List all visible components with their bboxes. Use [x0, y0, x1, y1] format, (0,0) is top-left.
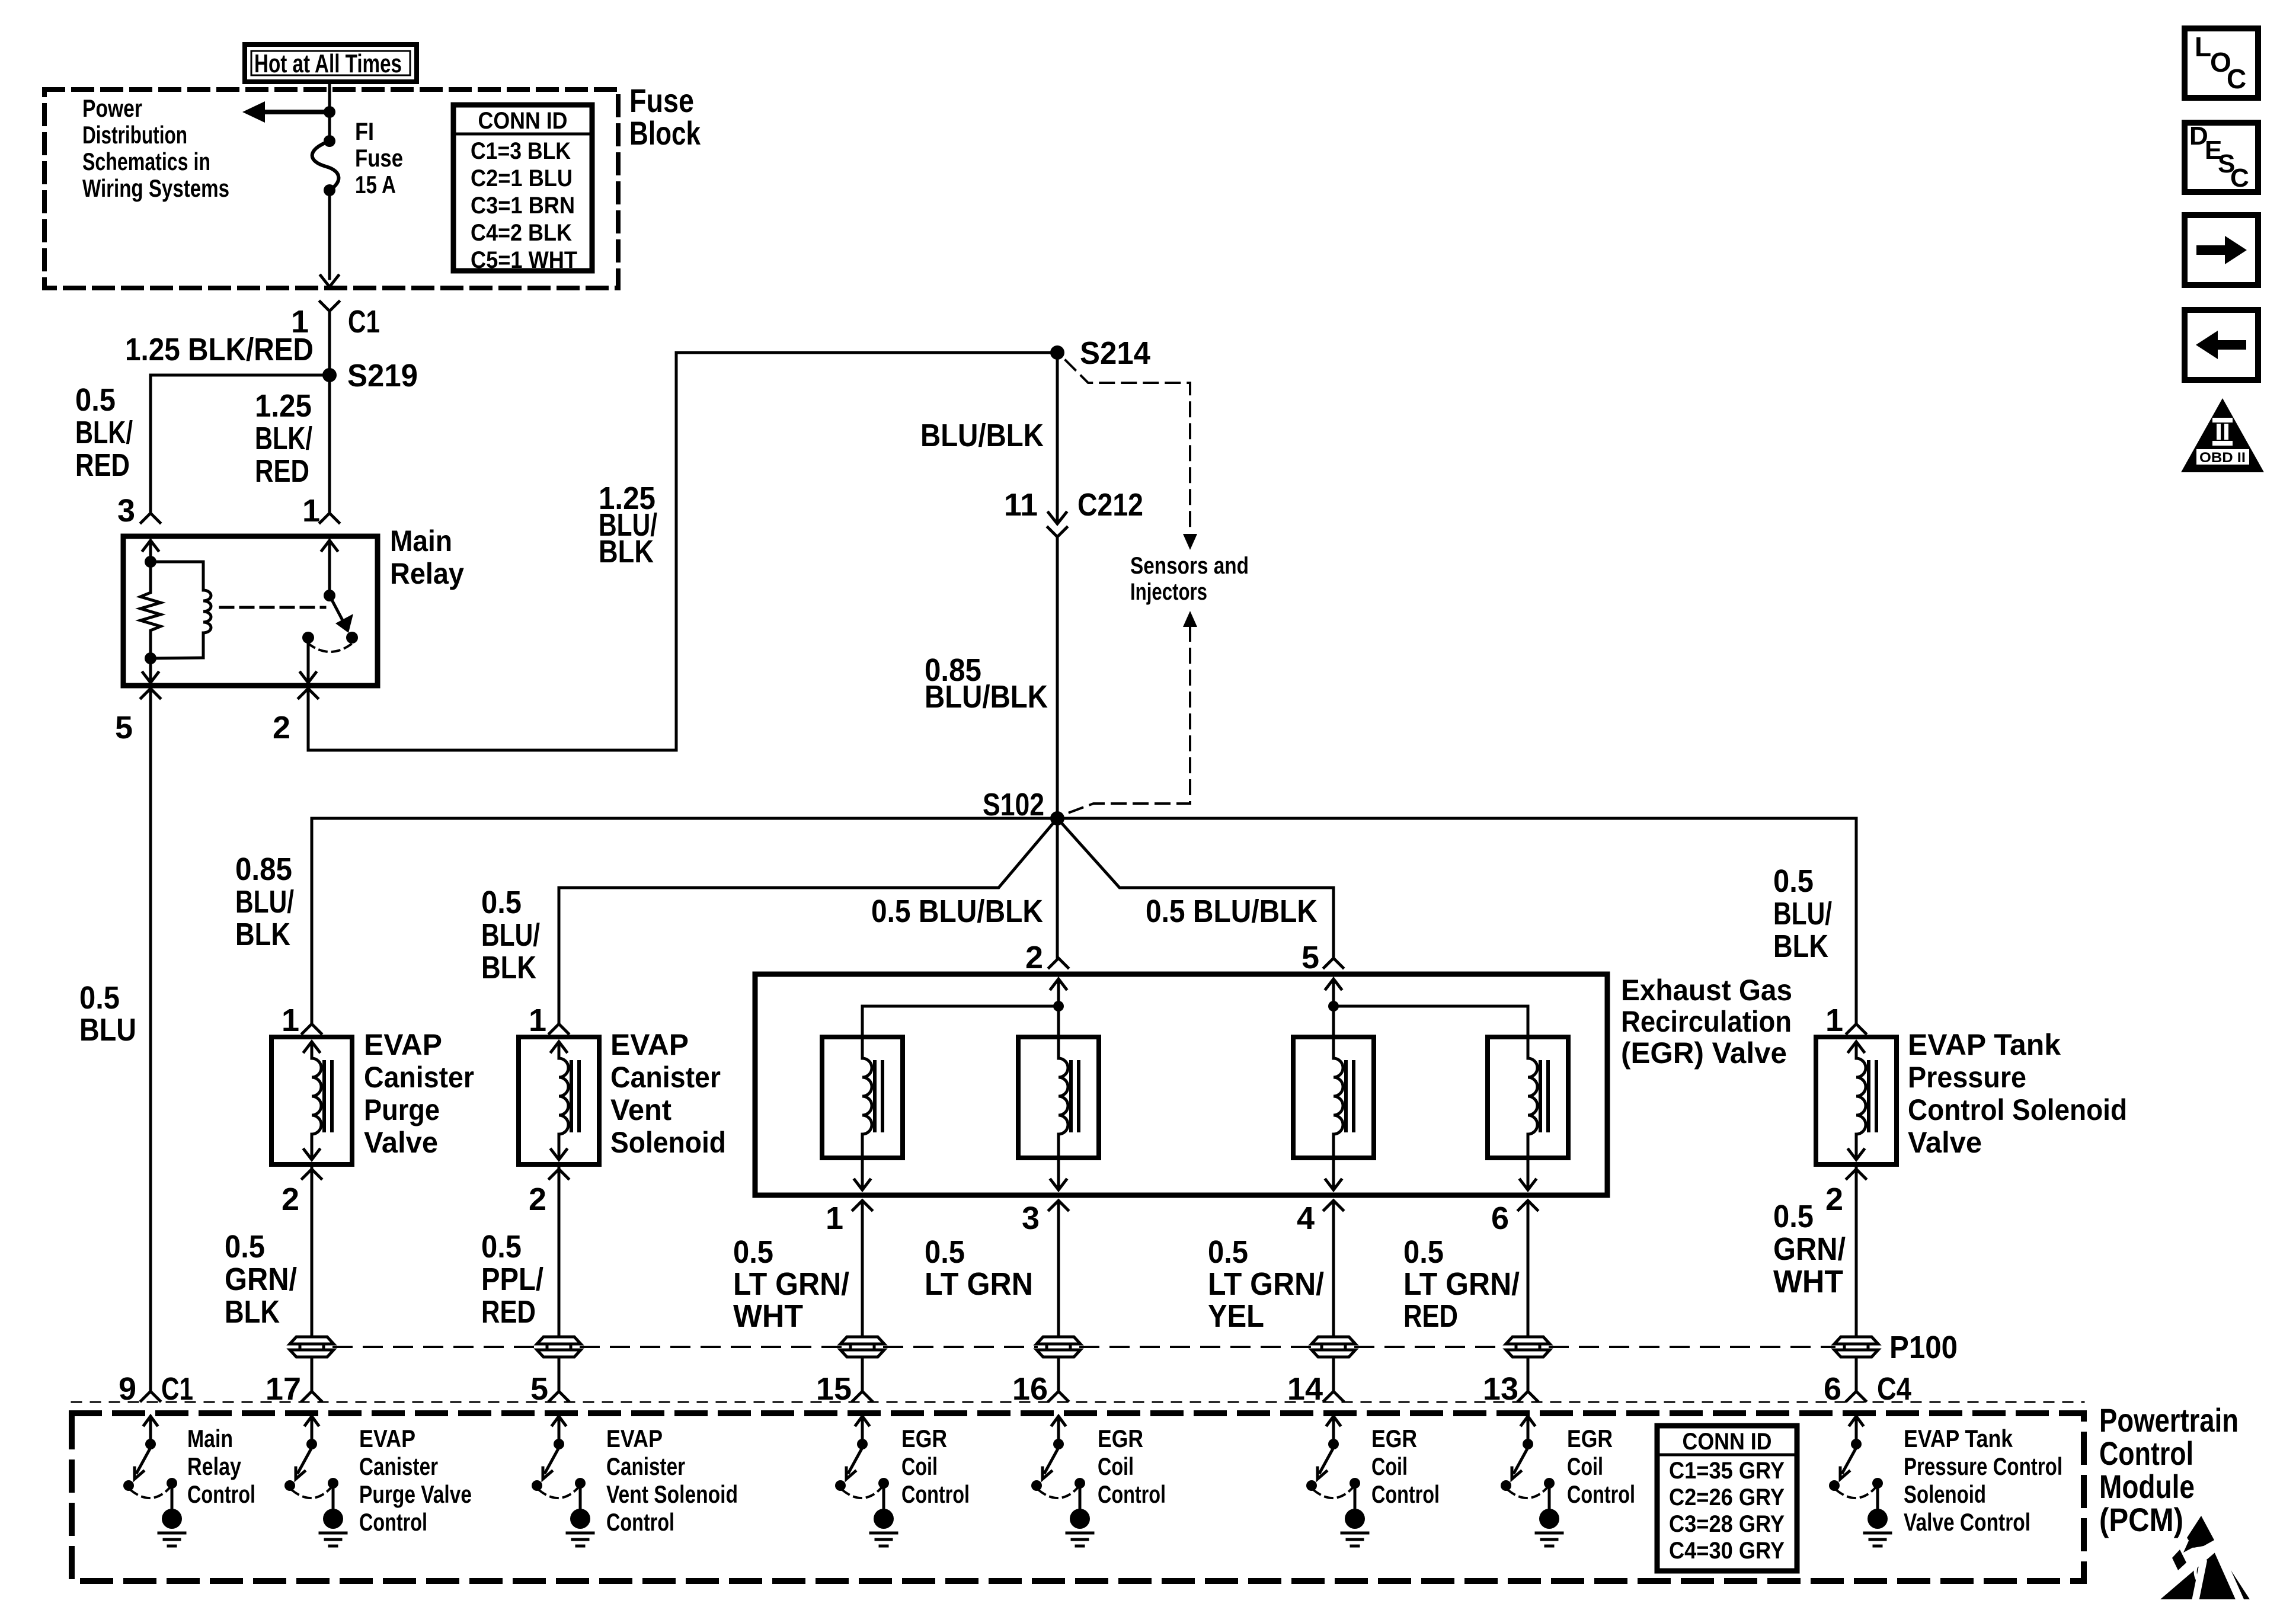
connector C1 pin 1: [291, 302, 380, 340]
svg-text:11: 11: [1004, 487, 1038, 523]
svg-text:PPL/: PPL/: [481, 1262, 543, 1297]
svg-text:BLU/: BLU/: [1773, 896, 1832, 932]
svg-text:0.5: 0.5: [225, 1229, 265, 1265]
PCM driver switch + ground at x=3132 (EVAP Tank Pressure Control): [1829, 1416, 1891, 1546]
wire into PCM x=2250: [1324, 1358, 1343, 1401]
label: EVAP Tank Pressure Control Solenoid Valve Control: [1904, 1425, 2062, 1536]
svg-text:WHT: WHT: [1773, 1264, 1843, 1299]
label: EGR Coil Control: [901, 1425, 970, 1508]
label: 0.5 LT GRN: [925, 1234, 1033, 1302]
wire: S102 branch to EGR pin 5: [1057, 818, 1334, 959]
PCM driver switch + ground at x=943 (EVAP Canister): [532, 1416, 593, 1546]
svg-text:0.5: 0.5: [1403, 1234, 1444, 1270]
vent pin 1 connector: [529, 1003, 568, 1038]
svg-text:C2=1 BLU: C2=1 BLU: [471, 165, 573, 191]
EGR pin 4: [1297, 1201, 1343, 1336]
label: EGR Coil Control: [1371, 1425, 1440, 1508]
wire: S219 branch left and down to relay pin 3: [151, 375, 330, 511]
EGR pin 2 connector: [1025, 940, 1068, 975]
label: Fuse Block: [629, 82, 701, 152]
svg-text:Vent: Vent: [610, 1093, 671, 1126]
svg-text:Module: Module: [2099, 1468, 2195, 1505]
splice S102: [983, 787, 1064, 825]
label: EGR Coil Control: [1567, 1425, 1635, 1508]
label: Main Relay: [390, 524, 464, 590]
svg-text:0.5: 0.5: [925, 1234, 965, 1270]
PCM driver switch + ground at x=1786 (EGR Coil): [1031, 1416, 1093, 1546]
label: BLU/BLK: [920, 418, 1044, 453]
svg-text:C3=28 GRY: C3=28 GRY: [1669, 1511, 1785, 1537]
icon: DESC box: [2185, 121, 2258, 193]
grommet P100 at x=3132: [1834, 1337, 1878, 1357]
svg-text:1: 1: [1825, 1003, 1843, 1038]
label: 1.25 BLK/RED (pin1 feed): [255, 388, 312, 489]
relay switch pin1/pin2 side: [300, 540, 358, 683]
svg-text:Coil: Coil: [1371, 1452, 1408, 1480]
wire: arrow to other circuits (left): [242, 101, 330, 123]
svg-text:C3=1 BRN: C3=1 BRN: [471, 193, 575, 219]
EGR pin 6: [1491, 1201, 1537, 1336]
svg-text:GRN/: GRN/: [225, 1262, 297, 1297]
wire into PCM x=1455: [853, 1358, 872, 1401]
svg-text:Solenoid: Solenoid: [610, 1126, 726, 1159]
label: EGR Coil Control: [1098, 1425, 1166, 1508]
svg-text:Power: Power: [82, 94, 142, 122]
CONN ID table (fuse block): [453, 105, 592, 273]
svg-text:15 A: 15 A: [355, 171, 396, 199]
label: EVAP Canister Vent Solenoid Control: [606, 1425, 738, 1536]
svg-text:LT GRN/: LT GRN/: [733, 1266, 849, 1302]
svg-text:Hot at All Times: Hot at All Times: [254, 49, 402, 78]
svg-text:P100: P100: [1889, 1330, 1958, 1365]
P100 dashed bulkhead line: [334, 1346, 1834, 1348]
wire: 1.25 BLK/RED from C1 to S219: [328, 311, 331, 375]
svg-text:BLK: BLK: [481, 950, 536, 985]
icon: OBD II triangle: [2181, 398, 2264, 472]
svg-text:Coil: Coil: [901, 1452, 938, 1480]
svg-text:Powertrain: Powertrain: [2099, 1401, 2239, 1439]
wire: rail into purge pin1 handled above; pin1 connector purge: [282, 1003, 321, 1038]
wire: fuse output down to C1: [321, 190, 338, 287]
PCM driver switch + ground at x=254 (Main Relay): [123, 1416, 185, 1546]
svg-text:Control: Control: [2099, 1435, 2193, 1472]
svg-text:Injectors: Injectors: [1130, 579, 1207, 605]
svg-text:Fuse: Fuse: [355, 144, 403, 172]
svg-text:Main: Main: [187, 1425, 233, 1452]
wire: feed from Hot tag into fuse block: [324, 82, 335, 137]
svg-text:BLU/: BLU/: [235, 884, 294, 920]
icon: forward arrow box: [2185, 215, 2258, 285]
svg-text:BLU: BLU: [79, 1012, 136, 1048]
svg-text:EGR: EGR: [901, 1425, 947, 1452]
svg-text:Main: Main: [390, 524, 452, 558]
svg-text:Exhaust Gas: Exhaust Gas: [1621, 974, 1792, 1007]
label: 0.5 LT GRN/RED: [1403, 1234, 1520, 1334]
svg-text:2: 2: [1825, 1182, 1843, 1217]
svg-text:Purge Valve: Purge Valve: [359, 1480, 472, 1508]
pin 1: [302, 493, 339, 529]
svg-text:Valve: Valve: [364, 1126, 438, 1159]
svg-text:0.5: 0.5: [79, 980, 120, 1016]
svg-text:FI: FI: [355, 117, 374, 145]
svg-text:EVAP: EVAP: [610, 1028, 689, 1061]
label: 0.85 BLU/BLK: [925, 652, 1048, 715]
svg-text:WHT: WHT: [733, 1298, 803, 1334]
svg-text:Purge: Purge: [364, 1093, 440, 1126]
svg-text:CONN ID: CONN ID: [1683, 1429, 1772, 1455]
wire into PCM x=526: [302, 1358, 321, 1401]
label: 0.5 BLU/BLK (vent feed): [481, 885, 540, 985]
svg-text:5: 5: [1302, 940, 1319, 975]
svg-text:Block: Block: [629, 114, 701, 152]
svg-text:Fuse: Fuse: [629, 82, 694, 119]
label: EVAP Canister Purge Valve Control: [359, 1425, 472, 1536]
label: 1.25 BLU/BLK: [599, 481, 657, 569]
label: Sensors and Injectors: [1130, 553, 1249, 605]
svg-text:BLK: BLK: [599, 534, 654, 569]
svg-text:BLK/: BLK/: [75, 415, 133, 450]
svg-text:0.5: 0.5: [1773, 863, 1814, 899]
svg-text:Pressure: Pressure: [1908, 1061, 2026, 1094]
svg-text:GRN/: GRN/: [1773, 1231, 1846, 1267]
splice S219: [322, 358, 418, 393]
svg-text:C4=30 GRY: C4=30 GRY: [1669, 1538, 1785, 1564]
ESD sensitivity symbol: [2160, 1516, 2250, 1601]
wire: S219 down to relay pin 1: [328, 375, 331, 511]
EVAP canister purge valve solenoid: [271, 1037, 352, 1164]
label: 0.5 LT GRN/WHT: [733, 1234, 849, 1334]
wire: S102 branch to vent solenoid: [559, 818, 1057, 1024]
svg-text:Canister: Canister: [364, 1061, 474, 1094]
svg-text:Coil: Coil: [1098, 1452, 1134, 1480]
main relay box: [123, 536, 378, 686]
svg-text:Recirculation: Recirculation: [1621, 1005, 1792, 1038]
svg-text:1.25 BLK/RED: 1.25 BLK/RED: [125, 332, 314, 367]
svg-text:Control: Control: [1371, 1480, 1440, 1508]
svg-text:L: L: [2195, 31, 2211, 62]
EGR coil 2: [1018, 1037, 1099, 1190]
vent pin 2: [529, 1168, 568, 1336]
pin 3: [117, 493, 160, 529]
label: Powertrain Control Module (PCM): [2099, 1401, 2239, 1538]
svg-text:1: 1: [529, 1003, 546, 1038]
svg-text:BLK: BLK: [225, 1294, 280, 1330]
svg-text:0.5 BLU/BLK: 0.5 BLU/BLK: [871, 894, 1043, 929]
svg-text:2: 2: [529, 1182, 546, 1217]
svg-text:5: 5: [115, 710, 133, 745]
svg-text:Control: Control: [606, 1508, 674, 1536]
svg-text:Sensors and: Sensors and: [1130, 553, 1249, 579]
svg-text:0.5: 0.5: [75, 382, 116, 418]
svg-text:Control: Control: [359, 1508, 427, 1536]
EGR pin 5 connector: [1302, 940, 1343, 975]
svg-text:2: 2: [1025, 940, 1043, 975]
svg-text:0.5: 0.5: [1208, 1234, 1248, 1270]
fuse FI 15A: [312, 117, 403, 199]
svg-text:C: C: [2227, 63, 2246, 94]
svg-text:Coil: Coil: [1567, 1452, 1603, 1480]
grommet P100 at x=2578: [1506, 1337, 1550, 1357]
svg-text:0.5: 0.5: [481, 1229, 522, 1265]
svg-text:C1: C1: [348, 304, 380, 340]
label: 0.5 BLU/BLK (tank feed): [1773, 863, 1832, 964]
relay dashed actuator link: [220, 606, 325, 609]
svg-text:2: 2: [282, 1182, 299, 1217]
svg-text:0.85: 0.85: [235, 852, 292, 887]
PCM driver switch + ground at x=2578 (EGR Coil): [1501, 1416, 1562, 1546]
exhaust gas recirculation EGR valve box: [755, 974, 1607, 1195]
svg-text:Valve Control: Valve Control: [1904, 1508, 2030, 1536]
svg-text:Control: Control: [1098, 1480, 1166, 1508]
PCM dashed box: [72, 1413, 2084, 1581]
svg-text:EVAP: EVAP: [359, 1425, 415, 1452]
svg-text:EGR: EGR: [1567, 1425, 1613, 1452]
svg-text:C5=1 WHT: C5=1 WHT: [471, 247, 577, 273]
wire: C212 down to S102: [1056, 537, 1059, 818]
label: P100: [1889, 1330, 1958, 1365]
EGR pin 1: [826, 1201, 872, 1336]
connector C212 pin 11: [1004, 487, 1143, 537]
EGR coil 1: [822, 1037, 903, 1190]
svg-text:3: 3: [1022, 1201, 1040, 1236]
svg-text:Control Solenoid: Control Solenoid: [1908, 1093, 2127, 1126]
wire into PCM x=2578: [1518, 1358, 1537, 1401]
svg-text:Canister: Canister: [359, 1452, 438, 1480]
svg-text:Distribution: Distribution: [82, 121, 187, 149]
wire: S102 straight down to EGR pin 2: [1056, 818, 1059, 959]
svg-text:0.5: 0.5: [1773, 1199, 1814, 1234]
svg-text:1: 1: [826, 1201, 843, 1236]
svg-text:0.5: 0.5: [733, 1234, 773, 1270]
label: 0.5 BLU/BLK (EGR 2): [871, 894, 1043, 929]
PCM driver switch + ground at x=1455 (EGR Coil): [835, 1416, 897, 1546]
svg-text:(EGR) Valve: (EGR) Valve: [1621, 1036, 1787, 1070]
svg-text:Canister: Canister: [606, 1452, 685, 1480]
pin 5: [115, 689, 160, 745]
svg-text:Relay: Relay: [187, 1452, 242, 1480]
label: 0.5 GRN/BLK: [225, 1229, 297, 1330]
svg-text:EVAP: EVAP: [364, 1028, 442, 1061]
wire into PCM x=943: [549, 1358, 568, 1401]
svg-text:6: 6: [1491, 1201, 1509, 1236]
grommet P100 at x=1455: [840, 1337, 884, 1357]
wire: S214 down to C212: [1056, 353, 1059, 520]
svg-text:BLU/: BLU/: [481, 917, 540, 953]
svg-text:S214: S214: [1080, 335, 1150, 371]
EGR coil 3: [1293, 1037, 1374, 1190]
svg-text:LT GRN: LT GRN: [925, 1266, 1033, 1302]
wire: relay pin5 long run down to PCM pin 9: [149, 692, 152, 1390]
svg-text:LT GRN/: LT GRN/: [1403, 1266, 1520, 1302]
svg-text:BLK: BLK: [1773, 929, 1828, 964]
svg-text:C1=35 GRY: C1=35 GRY: [1669, 1458, 1785, 1484]
svg-text:(PCM): (PCM): [2099, 1501, 2183, 1538]
svg-text:LT GRN/: LT GRN/: [1208, 1266, 1324, 1302]
svg-text:Wiring Systems: Wiring Systems: [82, 174, 229, 202]
purge pin 2: [282, 1168, 321, 1336]
svg-text:EGR: EGR: [1371, 1425, 1417, 1452]
svg-text:4: 4: [1297, 1201, 1315, 1236]
svg-text:C2=26 GRY: C2=26 GRY: [1669, 1484, 1785, 1510]
label: 0.5 LT GRN/YEL: [1208, 1234, 1324, 1334]
CONN ID table (PCM): [1657, 1426, 1797, 1571]
svg-text:Valve: Valve: [1908, 1126, 1982, 1159]
relay coil branch pin3 side: [140, 540, 211, 683]
dashed: to sensors and injectors: [1066, 360, 1197, 813]
note: Power Distribution Schematics in Wiring Systems: [82, 94, 229, 202]
svg-text:Pressure Control: Pressure Control: [1904, 1452, 2062, 1480]
PCM driver switch + ground at x=526 (EVAP Canister): [284, 1416, 346, 1546]
grommet P100 at x=2250: [1312, 1337, 1355, 1357]
grommet P100 at x=943: [537, 1337, 581, 1357]
label: 0.5 PPL/RED: [481, 1229, 543, 1330]
tank pin 2: [1825, 1168, 1866, 1336]
svg-text:Control: Control: [901, 1480, 970, 1508]
svg-text:Solenoid: Solenoid: [1904, 1480, 1986, 1508]
label: 0.5 BLK/RED: [75, 382, 133, 483]
label: 0.85 BLU/BLK (purge feed): [235, 852, 294, 952]
grommet P100 at x=1786: [1037, 1337, 1080, 1357]
EGR pin 3: [1022, 1201, 1068, 1336]
svg-text:C1=3 BLK: C1=3 BLK: [471, 138, 571, 164]
svg-text:YEL: YEL: [1208, 1298, 1264, 1334]
tank pin 1 connector: [1825, 1003, 1866, 1038]
thin connector dashed line: [72, 1401, 2084, 1403]
svg-text:RED: RED: [1403, 1298, 1458, 1334]
EVAP tank pressure control solenoid valve: [1816, 1037, 1897, 1164]
svg-text:BLU/BLK: BLU/BLK: [925, 679, 1048, 715]
EVAP canister vent solenoid: [519, 1037, 599, 1164]
svg-text:3: 3: [117, 493, 135, 529]
EGR coil 4: [1488, 1037, 1568, 1190]
icon: back arrow box: [2185, 310, 2258, 380]
label: 0.5 BLU/BLK (EGR 5): [1146, 894, 1318, 929]
label: 1.25 BLK/RED: [125, 332, 314, 367]
svg-text:EVAP Tank: EVAP Tank: [1904, 1425, 2013, 1452]
svg-text:1.25: 1.25: [255, 388, 312, 424]
grommet P100 at x=526: [290, 1337, 334, 1357]
EGR inner feed rails: [862, 979, 1528, 1037]
svg-text:OBD II: OBD II: [2199, 450, 2246, 466]
svg-text:BLU/BLK: BLU/BLK: [920, 418, 1044, 453]
pin labels row above PCM: [119, 1371, 1911, 1407]
svg-text:C4=2 BLK: C4=2 BLK: [471, 220, 572, 246]
wire: S102 main rail: [312, 818, 1856, 1024]
svg-text:Control: Control: [1567, 1480, 1635, 1508]
svg-text:CONN ID: CONN ID: [478, 108, 568, 134]
svg-text:EGR: EGR: [1098, 1425, 1143, 1452]
label: 0.5 BLU: [79, 980, 136, 1048]
svg-text:C212: C212: [1077, 487, 1143, 523]
svg-text:RED: RED: [75, 447, 130, 483]
svg-text:S219: S219: [347, 358, 418, 393]
svg-text:1: 1: [302, 493, 320, 529]
svg-text:BLK: BLK: [235, 917, 290, 952]
svg-text:0.5 BLU/BLK: 0.5 BLU/BLK: [1146, 894, 1318, 929]
wire into PCM x=1786: [1049, 1358, 1068, 1401]
splice S214: [1050, 335, 1150, 371]
label: Main Relay Control: [187, 1425, 255, 1508]
svg-text:Control: Control: [187, 1480, 255, 1508]
wire into PCM x=3132: [1847, 1358, 1866, 1401]
svg-text:EVAP Tank: EVAP Tank: [1908, 1028, 2061, 1061]
PCM driver switch + ground at x=2250 (EGR Coil): [1306, 1416, 1368, 1546]
svg-text:Canister: Canister: [610, 1061, 721, 1094]
svg-text:C: C: [2230, 164, 2249, 193]
wire: relay pin2 to S214: [308, 353, 1057, 750]
svg-text:RED: RED: [481, 1294, 536, 1330]
svg-text:BLK/: BLK/: [255, 421, 312, 456]
svg-text:2: 2: [273, 710, 290, 745]
label: Exhaust Gas Recirculation (EGR) Valve: [1621, 974, 1792, 1070]
icon: LOC box: [2185, 28, 2258, 98]
svg-text:RED: RED: [255, 453, 309, 489]
label: 0.5 GRN/WHT: [1773, 1199, 1846, 1299]
main relay control wire chevron: [141, 1391, 160, 1401]
pin 2: [273, 689, 318, 745]
node: Hot at All Times power tag: [245, 44, 417, 82]
svg-text:0.5: 0.5: [481, 885, 522, 920]
svg-text:Schematics in: Schematics in: [82, 148, 210, 175]
svg-text:EVAP: EVAP: [606, 1425, 663, 1452]
svg-text:Vent Solenoid: Vent Solenoid: [606, 1480, 738, 1508]
svg-text:Relay: Relay: [390, 557, 464, 590]
fuse block dashed enclosure: [44, 89, 618, 288]
svg-text:1: 1: [282, 1003, 299, 1038]
